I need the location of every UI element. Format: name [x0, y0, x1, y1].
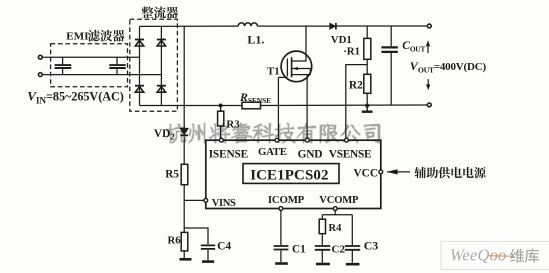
svg-text:VCC: VCC: [354, 168, 378, 180]
svg-text:C4: C4: [217, 241, 231, 253]
svg-text:VD1: VD1: [331, 34, 352, 46]
svg-text:R6: R6: [168, 234, 182, 246]
svg-text:R2: R2: [349, 80, 363, 92]
svg-text:R5: R5: [165, 168, 179, 180]
svg-text:VSENSE: VSENSE: [329, 148, 372, 160]
svg-text:C3: C3: [364, 238, 379, 252]
svg-text:GND: GND: [298, 148, 323, 160]
svg-text:WeeQoo: WeeQoo: [450, 245, 507, 264]
svg-text:ICOMP: ICOMP: [268, 194, 305, 206]
svg-text:EMI: EMI: [66, 31, 89, 43]
svg-text:VINS: VINS: [212, 198, 236, 209]
svg-text:ISENSE: ISENSE: [209, 148, 248, 160]
svg-text:ICE1PCS02: ICE1PCS02: [250, 167, 328, 183]
svg-text:GATE: GATE: [258, 146, 287, 158]
svg-text:L1.: L1.: [247, 33, 264, 47]
svg-text:C1: C1: [292, 243, 306, 255]
svg-text:R4: R4: [329, 223, 343, 234]
svg-text:·R1: ·R1: [343, 46, 360, 58]
svg-text:C2: C2: [332, 243, 346, 255]
svg-text:R3: R3: [226, 119, 240, 131]
svg-text:VCOMP: VCOMP: [319, 195, 359, 206]
svg-text:T1: T1: [267, 66, 280, 78]
